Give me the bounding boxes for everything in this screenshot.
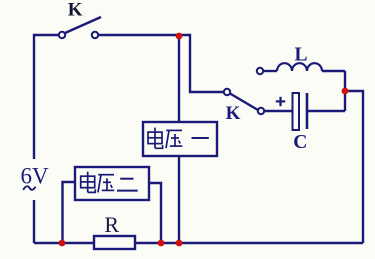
- svg-text:L: L: [294, 44, 307, 65]
- svg-text:K: K: [226, 103, 241, 124]
- svg-text:K: K: [68, 0, 83, 21]
- svg-text:6V: 6V: [21, 163, 50, 188]
- svg-text:R: R: [104, 212, 119, 237]
- svg-text:C: C: [293, 132, 307, 153]
